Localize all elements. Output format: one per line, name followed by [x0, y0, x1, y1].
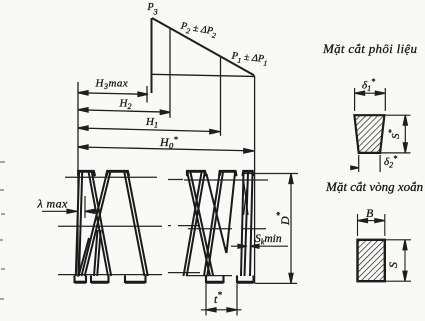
svg-text:D*: D* — [275, 211, 292, 226]
svg-text:Mặt cắt vòng xoắn: Mặt cắt vòng xoắn — [325, 179, 423, 194]
svg-text:H1: H1 — [145, 116, 158, 130]
svg-text:H0*: H0* — [159, 134, 179, 151]
svg-text:Mặt cắt phôi liệu: Mặt cắt phôi liệu — [322, 41, 417, 56]
svg-text:S: S — [386, 262, 400, 268]
svg-text:λ max: λ max — [37, 197, 68, 211]
svg-text:B: B — [366, 206, 374, 220]
svg-text:H3max: H3max — [95, 78, 129, 92]
svg-text:t*: t* — [214, 290, 222, 306]
svg-text:δ2*: δ2* — [384, 154, 397, 170]
svg-text:P3: P3 — [147, 2, 158, 17]
svg-text:S*: S* — [387, 130, 402, 140]
svg-text:δ1*: δ1* — [362, 77, 375, 93]
svg-text:H2: H2 — [119, 98, 132, 112]
